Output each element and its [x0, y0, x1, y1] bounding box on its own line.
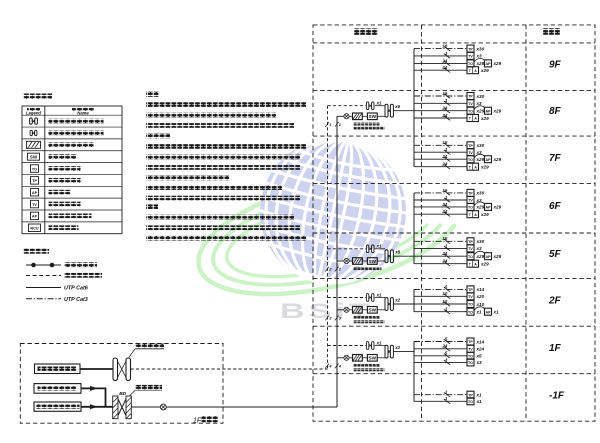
wire: horizontal run — [414, 236, 467, 243]
cable legend: UTP Cat6 solid line — [26, 286, 89, 292]
data outlet TO — [467, 398, 482, 405]
svg-text:4: 4 — [328, 364, 332, 369]
svg-text:x29: x29 — [476, 61, 485, 66]
svg-text:9F: 9F — [549, 60, 562, 71]
floor bus 2F — [413, 289, 415, 311]
wire: horizontal run — [414, 65, 467, 72]
svg-text:TV: TV — [468, 199, 473, 203]
svg-text:x2: x2 — [394, 345, 400, 350]
fiber coupler — [344, 355, 349, 360]
svg-text:6F: 6F — [549, 201, 562, 212]
svg-text:x29: x29 — [480, 68, 489, 73]
svg-text:x30: x30 — [476, 46, 485, 51]
telephone outlet TP — [467, 286, 485, 293]
cabinet labels — [354, 123, 385, 130]
svg-text:x29: x29 — [476, 205, 485, 210]
fiber patch panel 24芯光纤配线架 — [353, 355, 363, 362]
wire: horizontal run — [414, 344, 467, 351]
wire — [349, 115, 352, 117]
svg-text:TO: TO — [32, 167, 37, 171]
svg-text:x1: x1 — [376, 340, 382, 345]
svg-text:SW: SW — [369, 356, 377, 361]
floor label 8F — [549, 106, 562, 117]
data outlet feeding wireless AP — [467, 307, 499, 315]
1F machine room dashed border — [20, 344, 223, 424]
wire: voice frame to panel — [375, 345, 385, 347]
svg-text:x1: x1 — [476, 393, 483, 398]
svg-text:AP: AP — [32, 191, 38, 195]
svg-text:TP: TP — [468, 47, 473, 51]
svg-text:1: 1 — [445, 307, 448, 312]
wire: horizontal run — [414, 51, 467, 58]
svg-text:Name: Name — [77, 111, 89, 116]
floor label 1F — [549, 343, 562, 354]
wire: horizontal run — [414, 91, 467, 98]
svg-text:x30: x30 — [476, 94, 485, 99]
svg-text:Legend: Legend — [26, 111, 41, 116]
svg-text:x29: x29 — [493, 254, 502, 259]
network switch SW — [367, 258, 377, 265]
svg-text:UTP Cat3: UTP Cat3 — [64, 297, 88, 303]
fiber coupler in room — [160, 404, 166, 410]
svg-text:TO: TO — [468, 62, 473, 66]
wire: voice MDF out dashed to trunk — [131, 368, 328, 370]
svg-text:10: 10 — [442, 291, 447, 296]
wire: voice branch dashed — [328, 248, 367, 250]
voice 110 frame x1 — [366, 244, 382, 253]
floor bus 1F--1F — [413, 342, 415, 402]
TV outlet — [467, 100, 482, 107]
legend icon 无线AP — [31, 188, 39, 196]
svg-text:7F: 7F — [549, 153, 562, 164]
svg-text:x29: x29 — [480, 116, 489, 121]
legend icon 24芯光纤配线架 — [27, 141, 41, 148]
svg-text:24: 24 — [441, 106, 447, 111]
wire: panel to floor bus — [394, 351, 414, 353]
svg-text:x30: x30 — [476, 239, 485, 244]
svg-text:5F: 5F — [549, 249, 562, 260]
legend icon 网络交换机 SW — [28, 153, 40, 160]
legend icon 语音电话插座 TP — [31, 177, 39, 185]
wire: horizontal run — [414, 336, 467, 343]
svg-text:SW: SW — [369, 259, 377, 264]
legend icon 50对110语音配线架 — [30, 130, 37, 135]
fiber patch panel 24芯光纤配线架 — [353, 113, 363, 120]
svg-text:8F: 8F — [549, 106, 562, 117]
svg-text:x29: x29 — [476, 254, 485, 259]
svg-text:TO: TO — [468, 361, 473, 365]
telephone outlet TP — [467, 93, 485, 100]
svg-text:x29: x29 — [480, 262, 489, 267]
telephone outlet TP — [467, 238, 485, 245]
svg-text:1: 1 — [445, 195, 448, 200]
svg-text:T: T — [469, 69, 472, 73]
svg-text:3: 3 — [339, 316, 342, 321]
svg-text:A: A — [474, 69, 477, 73]
svg-text:1: 1 — [339, 122, 342, 127]
svg-text:T: T — [469, 165, 472, 169]
svg-text:AP: AP — [32, 215, 38, 219]
svg-text:24: 24 — [441, 58, 447, 63]
svg-text:16: 16 — [442, 236, 447, 241]
wire — [362, 309, 367, 311]
wire: PBX to voice MDF (thick) — [80, 368, 113, 370]
fiber coupler — [344, 114, 349, 119]
floor label -1F — [549, 391, 565, 402]
telephone outlet TP — [467, 391, 482, 398]
svg-text:10: 10 — [442, 299, 447, 304]
svg-text:5: 5 — [445, 351, 448, 356]
svg-text:1: 1 — [445, 98, 448, 103]
data outlet feeding wireless AP — [467, 202, 502, 210]
wire — [362, 260, 367, 262]
svg-text:T: T — [469, 262, 472, 266]
svg-text:RCU: RCU — [30, 227, 38, 231]
wire: voice frame to panel — [375, 105, 385, 107]
wire — [349, 357, 352, 359]
svg-text:x14: x14 — [476, 287, 485, 292]
legend table frame — [22, 106, 122, 234]
fiber patch panel 24芯光纤配线架 — [353, 258, 363, 265]
svg-text:24: 24 — [441, 154, 447, 159]
wire: panel to floor bus — [394, 303, 414, 305]
wire — [349, 260, 352, 262]
legend header 图例/Legend 图例名称/Name — [26, 107, 94, 115]
svg-text:TP: TP — [468, 393, 473, 397]
voice MDF label — [129, 344, 164, 358]
cable legend: 12芯单模光缆 fiber line — [26, 262, 97, 267]
network switch SW — [367, 355, 377, 362]
floor label 9F — [549, 60, 562, 71]
svg-text:x8: x8 — [394, 250, 400, 255]
fiber MDF BD 光纤总配线架 — [113, 391, 132, 419]
voice 110 frame x1 — [366, 101, 382, 110]
TV outlet — [467, 52, 482, 59]
svg-text:AP: AP — [486, 206, 492, 210]
combined outlet TO/AP — [467, 163, 489, 170]
svg-text:AP: AP — [486, 255, 492, 259]
wire: horizontal run — [414, 299, 467, 306]
TV outlet — [467, 293, 485, 300]
wire — [377, 357, 385, 359]
svg-text:T: T — [469, 117, 472, 121]
svg-text:BD: BD — [119, 391, 126, 397]
wire: horizontal run — [414, 291, 467, 298]
TV outlet — [467, 245, 482, 252]
wire — [362, 357, 367, 359]
trunk cable count marks — [325, 267, 342, 272]
data outlet TO — [467, 301, 485, 308]
svg-text:x29: x29 — [476, 157, 485, 162]
data patch panels x2 — [385, 345, 401, 358]
svg-text:1: 1 — [445, 396, 448, 401]
legend icon 带网络口面板式AP — [31, 212, 39, 220]
svg-text:TP: TP — [468, 240, 473, 244]
header 弱电井 — [354, 28, 378, 35]
svg-text:x5: x5 — [476, 354, 483, 359]
wire: horizontal run — [414, 44, 467, 51]
floor label 7F — [549, 153, 562, 164]
legend icon 24口六类数据配线架 — [30, 118, 38, 124]
data patch panels x6 — [385, 104, 401, 117]
hotel private network equipment box 酒店专用网络设备 — [34, 402, 81, 411]
svg-text:x24: x24 — [476, 347, 485, 352]
svg-text:x6: x6 — [394, 104, 400, 109]
svg-text:-1F: -1F — [549, 391, 565, 402]
fiber MDF label — [130, 385, 162, 396]
wire: horizontal run — [414, 202, 467, 209]
svg-text:24: 24 — [441, 113, 447, 118]
svg-text:x1: x1 — [376, 244, 382, 249]
svg-text:x1: x1 — [493, 310, 500, 315]
svg-text:1: 1 — [445, 147, 448, 152]
wire: horizontal run — [414, 113, 467, 120]
notes 说明 text block — [146, 92, 306, 241]
wire — [377, 309, 385, 311]
trunk cable count marks — [325, 364, 342, 369]
wire — [349, 309, 352, 311]
telephone outlet TP — [467, 338, 485, 345]
TV outlet — [467, 345, 485, 352]
fiber trunk riser (12芯单模光缆) x=337 — [336, 116, 338, 407]
wire: voice frame to panel — [375, 297, 385, 299]
svg-text:TO: TO — [468, 355, 473, 359]
svg-text:TO: TO — [468, 109, 473, 113]
wire: horizontal run — [414, 140, 467, 147]
svg-text:AP: AP — [486, 109, 492, 113]
wire: fiber branch — [337, 260, 344, 262]
fiber patch panel 24芯光纤配线架 — [353, 307, 363, 314]
TV outlet — [467, 149, 482, 156]
svg-text:TV: TV — [468, 247, 473, 251]
combined outlet TO/AP — [467, 67, 489, 74]
svg-text:x3: x3 — [476, 54, 483, 59]
svg-text:x3: x3 — [476, 246, 483, 251]
svg-text:x1: x1 — [376, 292, 382, 297]
svg-text:TP: TP — [32, 179, 37, 183]
voice 110 frame x1 — [366, 340, 382, 349]
svg-text:TP: TP — [468, 95, 473, 99]
svg-text:16: 16 — [442, 44, 447, 49]
svg-text:1F: 1F — [193, 418, 202, 425]
svg-text:5: 5 — [445, 336, 448, 341]
svg-text:x1: x1 — [476, 399, 483, 404]
svg-text:AP: AP — [486, 62, 492, 66]
svg-text:x29: x29 — [493, 205, 502, 210]
cable legend title 线缆说明 — [23, 249, 49, 254]
network switch SW — [367, 307, 377, 314]
svg-text:x14: x14 — [476, 339, 485, 344]
svg-text:16: 16 — [442, 188, 447, 193]
cable legend: UTP Cat3 dash-dot line — [26, 297, 88, 303]
wire: horizontal run — [414, 98, 467, 105]
svg-text:x3: x3 — [476, 101, 483, 106]
data outlet TO — [467, 352, 482, 359]
wire: horizontal run — [414, 154, 467, 161]
svg-text:TP: TP — [468, 144, 473, 148]
svg-text:TV: TV — [468, 151, 473, 155]
svg-text:A: A — [474, 262, 477, 266]
cabinet labels — [354, 316, 385, 323]
svg-text:TV: TV — [468, 348, 473, 352]
svg-text:x20: x20 — [476, 294, 485, 299]
data outlet feeding wireless AP — [467, 59, 502, 67]
svg-text:24: 24 — [441, 259, 447, 264]
svg-text:x29: x29 — [493, 61, 502, 66]
svg-text:24: 24 — [441, 65, 447, 70]
svg-text:x10: x10 — [476, 302, 485, 307]
svg-text:1: 1 — [445, 51, 448, 56]
wire: panel to floor bus — [394, 110, 414, 112]
svg-text:5: 5 — [445, 284, 448, 289]
riser table dashed frame — [313, 25, 595, 421]
svg-text:x30: x30 — [476, 143, 485, 148]
voice trunk riser (3类大对数 dashed) x=327.5 — [327, 106, 329, 369]
PBX box 电话程控交换机 — [35, 364, 81, 374]
svg-text:AP: AP — [486, 158, 492, 162]
floor label 5F — [549, 249, 562, 260]
svg-text:1: 1 — [445, 243, 448, 248]
data outlet TO — [467, 359, 482, 366]
svg-text:A: A — [474, 165, 477, 169]
legend table title 设计图例表 — [23, 94, 52, 99]
wire: fiber branch — [337, 115, 344, 117]
network switch SW — [367, 113, 377, 120]
telephone outlet TP — [467, 142, 485, 149]
telephone outlet TP — [467, 189, 485, 196]
cable legend: 三类大对数线缆 dashed line — [26, 273, 102, 278]
svg-text:UTP Cat6: UTP Cat6 — [64, 286, 89, 292]
svg-text:TO: TO — [468, 206, 473, 210]
svg-text:A: A — [474, 213, 477, 217]
floor bus 9F-7F — [413, 49, 415, 167]
svg-text:TO: TO — [468, 158, 473, 162]
wire: horizontal run — [414, 307, 467, 314]
voice MDF 语音总配线架 — [113, 358, 131, 381]
wire — [362, 115, 367, 117]
wire: horizontal run — [414, 195, 467, 202]
wire: horizontal run — [414, 259, 467, 266]
svg-text:SW: SW — [369, 114, 377, 119]
data patch panels x8 — [385, 250, 401, 263]
wire — [377, 260, 385, 262]
svg-text:AP: AP — [486, 310, 492, 314]
wire: horizontal run — [414, 251, 467, 258]
wire: horizontal run — [414, 147, 467, 154]
svg-text:x2: x2 — [394, 297, 400, 302]
wire: fiber branch — [337, 309, 344, 311]
wire: horizontal run — [414, 357, 467, 364]
svg-text:1: 1 — [445, 390, 448, 395]
legend icon 客房控制箱 RCU — [29, 224, 41, 232]
svg-text:TP: TP — [468, 288, 473, 292]
wire: horizontal run — [414, 284, 467, 291]
svg-text:TP: TP — [468, 192, 473, 196]
svg-text:x29: x29 — [480, 212, 489, 217]
fiber coupler — [344, 258, 349, 263]
guest network equipment box 客用主网络设备 — [34, 384, 81, 394]
wire: fiber MDF to coupler — [131, 406, 160, 408]
svg-text:TV: TV — [468, 55, 473, 59]
svg-text:TV: TV — [32, 203, 37, 207]
trunk cable count marks — [325, 122, 342, 127]
wire: fiber run to riser trunk — [166, 406, 337, 408]
legend icon 数字电视插座 TV — [31, 200, 39, 208]
wire: horizontal run — [414, 243, 467, 250]
data patch panels x2 — [385, 297, 401, 310]
combined outlet TO/AP — [467, 260, 489, 267]
wire: horizontal run — [414, 209, 467, 216]
svg-text:x1: x1 — [376, 101, 382, 106]
svg-text:x29: x29 — [493, 109, 502, 114]
wire: voice branch dashed — [328, 297, 367, 299]
wire: voice branch dashed — [328, 345, 367, 347]
combined outlet TO/AP — [467, 211, 489, 218]
svg-text:x29: x29 — [480, 165, 489, 170]
svg-text:TO: TO — [468, 310, 473, 314]
svg-text:TV: TV — [468, 295, 473, 299]
legend icon 数据网络插座 TO — [31, 165, 39, 173]
wire: horizontal run — [414, 58, 467, 65]
floor label 6F — [549, 201, 562, 212]
legend names column — [49, 119, 104, 230]
room label 1F机房 — [193, 416, 219, 424]
svg-text:TP: TP — [468, 340, 473, 344]
svg-text:x29: x29 — [476, 109, 485, 114]
wire: horizontal run — [414, 188, 467, 195]
voice 110 frame x1 — [366, 292, 382, 301]
wire: horizontal run — [414, 162, 467, 169]
svg-text:SW: SW — [369, 308, 377, 313]
svg-text:x29: x29 — [493, 157, 502, 162]
svg-text:TO: TO — [468, 400, 473, 404]
cabinet labels — [354, 267, 382, 270]
data outlet feeding wireless AP — [467, 251, 502, 259]
svg-text:24: 24 — [441, 162, 447, 167]
svg-text:TV: TV — [468, 102, 473, 106]
wire: voice frame to panel — [375, 248, 385, 250]
svg-text:SW: SW — [30, 155, 38, 160]
svg-text:16: 16 — [442, 140, 447, 145]
wire: horizontal run — [414, 106, 467, 113]
trunk cable count marks — [325, 316, 342, 321]
svg-text:TO: TO — [468, 255, 473, 259]
floor bus 6F-5F — [413, 193, 415, 264]
wire — [377, 115, 385, 117]
svg-text:2: 2 — [328, 267, 332, 272]
svg-text:x3: x3 — [476, 360, 483, 365]
svg-text:24: 24 — [441, 251, 447, 256]
wire: guest equipment with arrow — [81, 386, 106, 407]
svg-text:3: 3 — [329, 316, 332, 321]
telephone outlet TP — [467, 45, 485, 52]
data outlet feeding wireless AP — [467, 154, 502, 162]
wire: fiber branch — [337, 357, 344, 359]
wire: horizontal run — [414, 351, 467, 358]
svg-text:T: T — [469, 213, 472, 217]
svg-text:x1: x1 — [476, 310, 483, 315]
data outlet feeding wireless AP — [467, 106, 502, 114]
svg-text:24: 24 — [441, 209, 447, 214]
wire: voice branch dashed — [328, 105, 367, 107]
floor label 2F — [548, 296, 562, 307]
svg-text:4: 4 — [338, 364, 342, 369]
wire: horizontal run — [414, 390, 467, 397]
svg-text:24: 24 — [441, 202, 447, 207]
wire: panel to floor bus — [394, 255, 414, 257]
svg-text:1: 1 — [329, 122, 332, 127]
TV outlet — [467, 197, 482, 204]
